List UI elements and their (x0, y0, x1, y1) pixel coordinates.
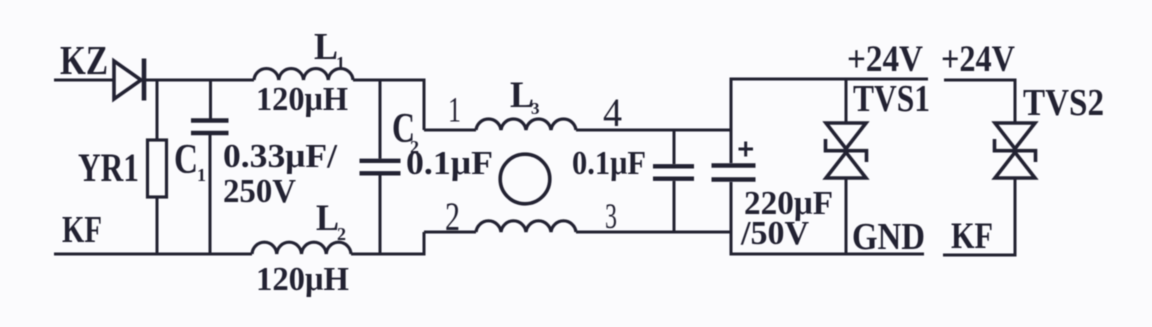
diode D1 cathode bar (142, 59, 147, 101)
wire C4 bottom lead (673, 181, 676, 232)
svg-text:KZ: KZ (60, 37, 108, 83)
wire right block vertical rail lower (730, 182, 733, 256)
svg-text:C: C (174, 137, 198, 183)
capacitor C5 electrolytic top plate (712, 163, 756, 168)
wire pin4 to right rail (576, 129, 731, 132)
TVS1 bottom diode triangle (826, 152, 866, 178)
wire YR1 bottom lead (156, 197, 159, 254)
wire step down to pin1 (423, 79, 426, 131)
wire YR1 top lead (156, 80, 159, 140)
wire pin2 (424, 231, 476, 234)
svg-text:0.33μF/: 0.33μF/ (223, 138, 338, 175)
svg-text:/50V: /50V (740, 215, 809, 252)
capacitor C2 bottom plate (360, 171, 401, 175)
inductor L3 bottom winding (476, 221, 576, 232)
svg-text:KF: KF (951, 216, 993, 257)
wire pin3 to right rail (576, 231, 731, 234)
svg-text:1: 1 (448, 90, 461, 130)
wire TVS2 bottom KF (943, 254, 1017, 257)
capacitor C5 electrolytic bottom plate (712, 177, 756, 182)
svg-text:120μH: 120μH (256, 81, 348, 118)
wire C2 top lead (379, 80, 382, 159)
svg-text:KF: KF (62, 209, 102, 251)
svg-text:2: 2 (445, 194, 460, 239)
svg-text:L: L (316, 198, 339, 239)
TVS2 bottom diode triangle (995, 152, 1035, 178)
TVS2 cathode z-bar (995, 139, 1036, 162)
wire top rail diode to L1 (146, 79, 254, 82)
svg-text:2: 2 (337, 224, 346, 244)
capacitor C4 top plate (653, 164, 694, 168)
svg-text:L: L (314, 26, 338, 68)
inductor L1 winding (254, 69, 353, 80)
capacitor C2 top plate (360, 159, 401, 163)
wire top rail from KZ to diode (54, 79, 114, 82)
wire top rail L1 to step (353, 79, 426, 82)
capacitor C1 bottom plate (191, 131, 229, 135)
svg-text:250V: 250V (223, 173, 296, 210)
svg-text:120μH: 120μH (256, 261, 349, 298)
wire TVS2 upper lead (1014, 79, 1017, 124)
capacitor C1 top plate (191, 118, 229, 122)
svg-text:+24V: +24V (941, 39, 1015, 80)
wire C1 bottom lead (209, 135, 212, 254)
wire C4 top lead (673, 130, 676, 164)
resistor YR1 body (148, 140, 167, 197)
wire +24V to TVS2 top (944, 79, 1017, 82)
TVS1 cathode z-bar (826, 139, 867, 162)
svg-text:1: 1 (197, 165, 206, 185)
svg-text:TVS2: TVS2 (1023, 82, 1104, 124)
wire C1 top lead (209, 80, 212, 119)
svg-text:TVS1: TVS1 (853, 78, 930, 120)
svg-text:4: 4 (603, 90, 622, 135)
wire pin1 (424, 129, 476, 132)
svg-text:0.1μF: 0.1μF (406, 145, 493, 182)
wire TVS2 lower lead (1014, 178, 1017, 257)
diode D1 triangle (114, 61, 141, 99)
TVS2 top diode triangle (995, 123, 1035, 149)
svg-text:3: 3 (605, 196, 617, 236)
capacitor C5 plus sign (739, 142, 754, 157)
wire step up to pin2 (423, 232, 426, 256)
wire right block top rail to +24V (730, 78, 929, 81)
wire bottom rail KF to L2 (54, 253, 252, 256)
TVS1 top diode triangle (826, 123, 866, 149)
transformer core circle L3 (500, 154, 550, 204)
svg-text:0.1μF: 0.1μF (572, 145, 646, 182)
svg-text:+24V: +24V (847, 39, 923, 80)
wire TVS1 upper lead (845, 79, 848, 123)
svg-text:1: 1 (336, 53, 345, 73)
wire right block vertical rail upper (730, 78, 733, 164)
svg-text:3: 3 (531, 99, 540, 118)
inductor L3 top winding (476, 119, 576, 130)
wire right block bottom rail GND (730, 253, 925, 256)
wire TVS1 lower lead (845, 178, 848, 254)
capacitor C4 bottom plate (653, 176, 694, 180)
svg-text:GND: GND (852, 216, 925, 258)
wire C2 bottom lead (379, 176, 382, 255)
wire bottom rail L2 to step (351, 253, 426, 256)
svg-text:YR1: YR1 (78, 145, 139, 190)
inductor L2 winding (252, 242, 351, 254)
